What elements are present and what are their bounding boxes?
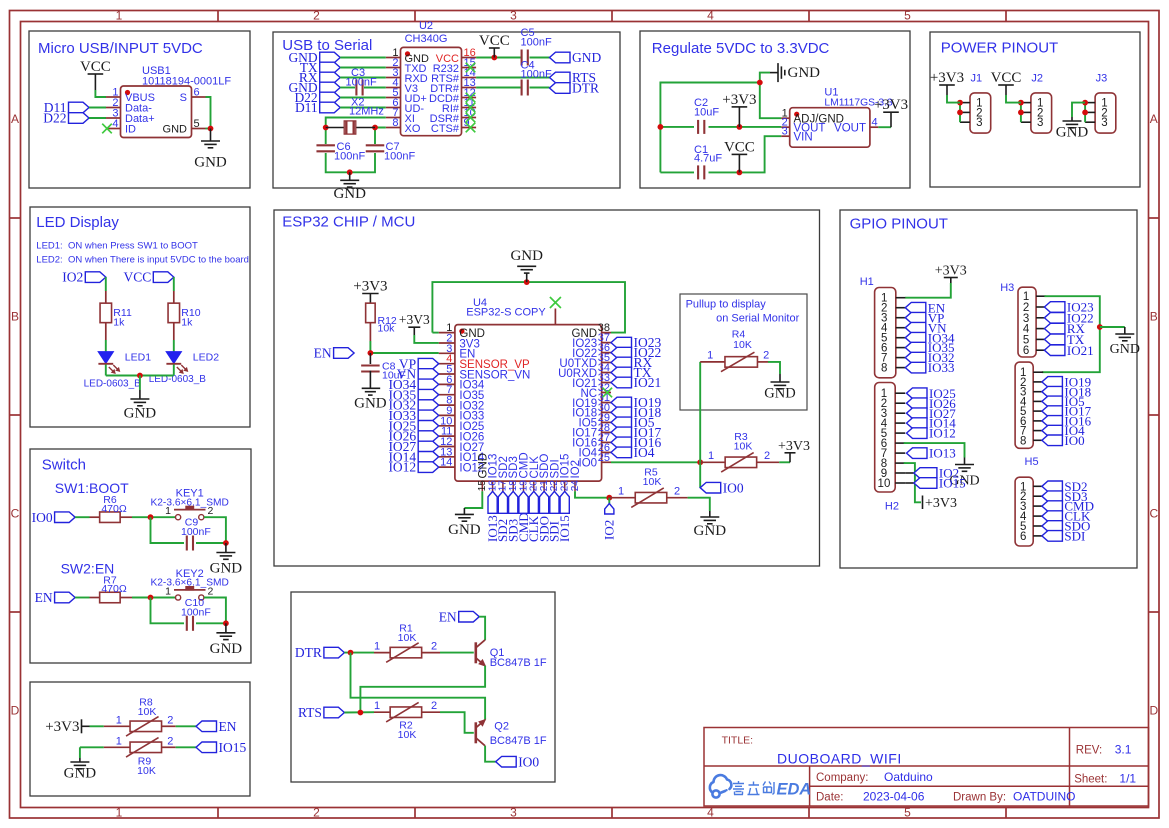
svg-text:10uF: 10uF	[694, 107, 719, 119]
svg-text:H5: H5	[1025, 456, 1039, 468]
svg-text:2: 2	[674, 486, 680, 498]
svg-text:on Serial Monitor: on Serial Monitor	[716, 313, 799, 325]
svg-text:Switch: Switch	[42, 457, 86, 474]
svg-text:1: 1	[374, 700, 380, 712]
svg-text:1: 1	[618, 486, 624, 498]
svg-text:XO: XO	[405, 123, 421, 135]
svg-text:Regulate 5VDC to 3.3VDC: Regulate 5VDC to 3.3VDC	[652, 40, 830, 57]
svg-text:GND: GND	[1110, 342, 1140, 357]
svg-text:GND: GND	[210, 641, 243, 657]
svg-text:10K: 10K	[137, 765, 156, 777]
svg-text:GND: GND	[448, 522, 481, 538]
svg-text:IO12: IO12	[388, 460, 416, 475]
svg-text:3: 3	[510, 806, 517, 820]
svg-text:+3V3: +3V3	[935, 264, 967, 279]
svg-text:A: A	[11, 112, 19, 126]
svg-text:+3V3: +3V3	[930, 70, 964, 86]
svg-text:10K: 10K	[734, 441, 753, 453]
svg-text:10k: 10k	[378, 323, 396, 335]
svg-text:3: 3	[1037, 117, 1043, 129]
svg-text:6: 6	[1023, 345, 1029, 357]
svg-text:2: 2	[764, 450, 770, 462]
svg-text:GND: GND	[333, 186, 366, 202]
svg-text:D22: D22	[43, 111, 66, 126]
svg-text:+3V3: +3V3	[353, 279, 387, 295]
svg-text:1: 1	[116, 806, 123, 820]
svg-text:EN: EN	[314, 346, 332, 361]
svg-text:14: 14	[440, 457, 452, 469]
svg-text:1k: 1k	[181, 317, 193, 329]
svg-text:100nF: 100nF	[521, 37, 552, 49]
svg-text:+3V3: +3V3	[874, 97, 908, 113]
svg-text:H3: H3	[1000, 282, 1014, 294]
svg-text:TITLE:: TITLE:	[722, 735, 754, 747]
svg-text:GND: GND	[788, 65, 821, 81]
svg-text:VCC: VCC	[124, 270, 152, 285]
svg-text:10K: 10K	[398, 632, 417, 644]
svg-text:1: 1	[708, 450, 714, 462]
svg-text:Q2: Q2	[494, 721, 509, 733]
svg-text:10K: 10K	[398, 729, 417, 741]
svg-text:Sheet:: Sheet:	[1074, 774, 1107, 786]
svg-text:10118194-0001LF: 10118194-0001LF	[142, 76, 231, 88]
svg-text:GND: GND	[163, 124, 188, 136]
svg-text:IO21: IO21	[1067, 343, 1094, 358]
svg-text:VOUT: VOUT	[834, 122, 866, 134]
svg-text:10K: 10K	[138, 706, 157, 718]
svg-text:8: 8	[1020, 435, 1026, 447]
svg-text:VCC: VCC	[479, 33, 510, 49]
svg-text:J3: J3	[1096, 73, 1108, 85]
svg-text:IO15: IO15	[219, 740, 247, 755]
svg-text:2: 2	[431, 641, 437, 653]
svg-text:Drawn By:: Drawn By:	[953, 792, 1006, 804]
svg-text:GND: GND	[572, 50, 601, 65]
svg-text:VCC: VCC	[80, 59, 111, 75]
svg-text:B: B	[1150, 310, 1158, 324]
svg-text:IO12: IO12	[929, 426, 956, 441]
svg-text:BC847B 1F: BC847B 1F	[490, 735, 547, 747]
svg-text:GND: GND	[64, 766, 97, 782]
svg-text:IO0: IO0	[723, 480, 744, 495]
svg-text:4: 4	[707, 806, 714, 820]
svg-text:K2-3.6×6.1_SMD: K2-3.6×6.1_SMD	[150, 497, 228, 508]
svg-text:LED2: LED2	[193, 352, 219, 364]
svg-text:IO4: IO4	[634, 445, 655, 460]
svg-text:2: 2	[167, 736, 173, 748]
svg-text:24: 24	[570, 480, 581, 492]
svg-text:Pullup to display: Pullup to display	[686, 299, 767, 311]
svg-text:4.7uF: 4.7uF	[694, 153, 722, 165]
svg-text:GND: GND	[210, 561, 243, 577]
svg-text:S: S	[180, 92, 187, 104]
svg-text:Company:: Company:	[816, 772, 868, 784]
svg-text:5: 5	[194, 118, 200, 130]
svg-text:470Ω: 470Ω	[101, 503, 127, 515]
svg-text:SW1:BOOT: SW1:BOOT	[55, 480, 129, 496]
svg-text:D: D	[11, 704, 20, 718]
svg-text:EN: EN	[219, 719, 237, 734]
svg-text:VCC: VCC	[991, 70, 1022, 86]
svg-text:IO33: IO33	[928, 360, 955, 375]
svg-text:+3V3: +3V3	[722, 92, 756, 108]
svg-text:GND: GND	[1056, 125, 1089, 141]
svg-text:CTS#: CTS#	[431, 123, 460, 135]
svg-text:IO2: IO2	[602, 520, 617, 540]
svg-text:GND: GND	[764, 386, 795, 402]
svg-text:IO2: IO2	[62, 270, 83, 285]
svg-text:6: 6	[194, 87, 200, 99]
svg-text:GND: GND	[354, 396, 387, 412]
svg-text:470Ω: 470Ω	[101, 583, 127, 595]
svg-text:IO13: IO13	[929, 446, 956, 461]
svg-text:1k: 1k	[113, 317, 125, 329]
svg-text:Date:: Date:	[816, 792, 844, 804]
svg-text:C: C	[1149, 507, 1158, 521]
svg-text:EDA: EDA	[777, 781, 812, 799]
svg-text:+3V3: +3V3	[45, 719, 79, 735]
svg-text:DUOBOARD_WIFI: DUOBOARD_WIFI	[777, 751, 902, 767]
svg-text:2: 2	[313, 806, 320, 820]
svg-text:D: D	[1149, 704, 1158, 718]
svg-text:LED-0603_B: LED-0603_B	[84, 379, 142, 390]
svg-text:K2-3.6×6.1_SMD: K2-3.6×6.1_SMD	[150, 578, 228, 589]
svg-text:GPIO PINOUT: GPIO PINOUT	[850, 216, 948, 233]
svg-text:A: A	[1150, 112, 1158, 126]
svg-text:100nF: 100nF	[181, 607, 211, 619]
svg-text:LED1: LED1	[125, 352, 151, 364]
svg-text:POWER PINOUT: POWER PINOUT	[941, 40, 1059, 57]
svg-text:1: 1	[116, 736, 122, 748]
svg-text:GND: GND	[694, 523, 727, 539]
svg-text:GND: GND	[194, 155, 227, 171]
svg-text:100nF: 100nF	[181, 526, 211, 538]
svg-text:DTR: DTR	[295, 645, 322, 660]
svg-text:CH340G: CH340G	[405, 33, 448, 45]
svg-text:3: 3	[782, 126, 788, 138]
svg-text:EN: EN	[439, 609, 457, 624]
svg-text:H2: H2	[885, 501, 899, 513]
svg-text:2: 2	[313, 9, 320, 23]
svg-text:J2: J2	[1031, 73, 1043, 85]
svg-text:3.1: 3.1	[1115, 743, 1132, 757]
svg-text:100nF: 100nF	[521, 69, 552, 81]
svg-text:2: 2	[167, 715, 173, 727]
svg-text:5: 5	[904, 9, 911, 23]
svg-text:8: 8	[392, 117, 398, 129]
svg-text:100nF: 100nF	[346, 77, 377, 89]
svg-text:LED1: ON when Press SW1 to BO: LED1: ON when Press SW1 to BOOT	[36, 241, 198, 252]
svg-text:4: 4	[872, 117, 878, 129]
svg-text:10: 10	[878, 478, 891, 490]
svg-text:10K: 10K	[643, 476, 662, 488]
svg-text:OATDUINO: OATDUINO	[1013, 790, 1075, 804]
svg-text:D11: D11	[295, 100, 318, 115]
svg-text:100nF: 100nF	[334, 151, 365, 163]
svg-text:10K: 10K	[733, 339, 752, 351]
svg-text:1: 1	[116, 9, 123, 23]
svg-text:J1: J1	[971, 73, 983, 85]
svg-text:B: B	[11, 310, 19, 324]
svg-text:2: 2	[763, 350, 769, 362]
svg-text:1: 1	[374, 641, 380, 653]
svg-text:1: 1	[116, 715, 122, 727]
svg-text:SDI: SDI	[1064, 529, 1085, 544]
svg-text:IO0: IO0	[32, 510, 53, 525]
svg-text:REV:: REV:	[1076, 745, 1102, 757]
svg-text:ESP32 CHIP / MCU: ESP32 CHIP / MCU	[282, 214, 415, 231]
svg-text:2023-04-06: 2023-04-06	[863, 790, 925, 804]
svg-text:+3V3: +3V3	[778, 439, 810, 454]
svg-text:LED2: ON when There is input: LED2: ON when There is input 5VDC to the…	[36, 255, 249, 266]
svg-text:DTR: DTR	[572, 81, 599, 96]
svg-text:IO15: IO15	[939, 476, 966, 491]
svg-text:ESP32-S COPY: ESP32-S COPY	[466, 306, 546, 318]
svg-text:GND: GND	[510, 248, 543, 264]
svg-text:12MHz: 12MHz	[349, 106, 384, 118]
svg-text:BC847B 1F: BC847B 1F	[490, 657, 547, 669]
svg-text:ID: ID	[125, 124, 136, 136]
svg-text:VCC: VCC	[724, 139, 755, 155]
svg-text:8: 8	[881, 363, 887, 375]
svg-text:Micro USB/INPUT 5VDC: Micro USB/INPUT 5VDC	[38, 40, 203, 57]
svg-text:5: 5	[904, 806, 911, 820]
svg-text:4: 4	[112, 118, 118, 130]
svg-text:VIN: VIN	[794, 132, 813, 144]
svg-text:IO2: IO2	[570, 460, 582, 479]
svg-text:+3V3: +3V3	[399, 312, 430, 327]
svg-text:6: 6	[1020, 531, 1026, 543]
svg-text:Oatduino: Oatduino	[884, 770, 933, 784]
svg-text:U2: U2	[419, 20, 433, 32]
svg-text:2: 2	[431, 700, 437, 712]
svg-text:IO0: IO0	[1064, 433, 1084, 448]
svg-text:3: 3	[1101, 117, 1107, 129]
svg-text:IO0: IO0	[518, 754, 539, 769]
svg-text:LED Display: LED Display	[36, 214, 119, 231]
svg-text:GND: GND	[124, 406, 157, 422]
svg-text:3: 3	[510, 9, 517, 23]
svg-text:3: 3	[976, 117, 982, 129]
svg-text:RTS: RTS	[298, 705, 322, 720]
svg-text:C: C	[11, 507, 20, 521]
svg-text:EN: EN	[35, 590, 53, 605]
svg-text:1: 1	[707, 350, 713, 362]
svg-text:25: 25	[598, 452, 610, 464]
svg-text:1/1: 1/1	[1119, 772, 1136, 786]
svg-text:IO15: IO15	[557, 515, 572, 542]
svg-text:4: 4	[707, 9, 714, 23]
svg-text:H1: H1	[860, 276, 874, 288]
svg-text:100nF: 100nF	[384, 151, 415, 163]
svg-text:IO21: IO21	[634, 375, 662, 390]
svg-text:+3V3: +3V3	[925, 496, 957, 511]
